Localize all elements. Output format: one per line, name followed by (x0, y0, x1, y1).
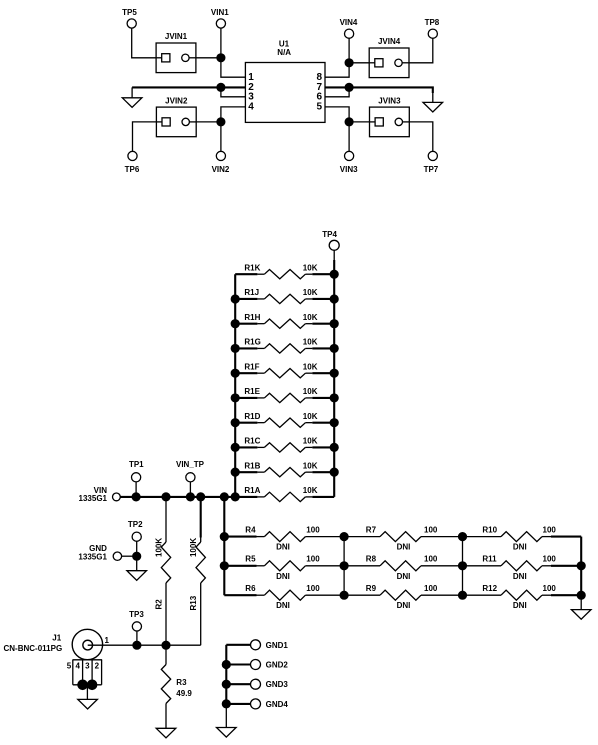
svg-text:VIN3: VIN3 (340, 165, 358, 174)
junction VIN branch R5 (220, 562, 228, 570)
svg-text:10K: 10K (303, 412, 318, 421)
svg-text:N/A: N/A (277, 48, 291, 57)
test point TP2 (128, 520, 143, 541)
resistor R2 100K (155, 497, 171, 645)
junction TP3 (133, 641, 141, 649)
junction left rail R1C (231, 443, 239, 451)
J1 shield pins 5 4 3 2 (67, 660, 102, 685)
svg-text:100: 100 (424, 555, 438, 564)
svg-text:R3: R3 (176, 678, 187, 687)
resistor R10 100 DNI (463, 525, 582, 551)
left rail (bold) (234, 274, 236, 497)
wire GND bus right (bold) (325, 87, 433, 93)
junction GND bus left (217, 83, 225, 91)
svg-text:10K: 10K (303, 288, 318, 297)
test point VIN2 (212, 151, 230, 174)
junction right rail R1D (330, 419, 338, 427)
svg-text:3: 3 (85, 661, 90, 670)
svg-text:JVIN3: JVIN3 (378, 96, 401, 105)
svg-text:TP8: TP8 (425, 18, 440, 27)
connector GND 1335G1 (78, 544, 121, 562)
junction left rail R1G (231, 344, 239, 352)
svg-text:VIN2: VIN2 (212, 165, 230, 174)
wire node to JVIN3 (349, 121, 369, 123)
svg-text:GND2: GND2 (266, 661, 289, 670)
connector VIN 1335G1 (79, 486, 121, 503)
wire U1 pin 5 to VIN3 node (325, 107, 349, 122)
wire right vertical (bold) (580, 537, 582, 596)
svg-text:10K: 10K (303, 486, 318, 495)
svg-text:GND3: GND3 (266, 680, 289, 689)
svg-text:R7: R7 (366, 525, 377, 534)
test point TP1 (129, 460, 144, 482)
svg-text:DNI: DNI (513, 543, 527, 552)
junction shield pin 3 (87, 680, 97, 690)
svg-text:100: 100 (306, 584, 320, 593)
svg-text:100: 100 (543, 525, 557, 534)
svg-text:49.9: 49.9 (176, 689, 192, 698)
wire JVIN4 to TP8 (409, 38, 433, 63)
svg-text:DNI: DNI (397, 601, 411, 610)
svg-text:J1: J1 (52, 633, 61, 642)
ground network right (571, 595, 591, 619)
svg-text:R1F: R1F (244, 362, 259, 371)
wire TP4 to right rail (333, 250, 335, 260)
svg-text:10K: 10K (303, 461, 318, 470)
svg-text:R1H: R1H (244, 313, 260, 322)
junction left rail R1J (231, 295, 239, 303)
svg-text:GND4: GND4 (266, 700, 289, 709)
svg-text:R1G: R1G (244, 338, 260, 347)
svg-text:100: 100 (543, 555, 557, 564)
svg-text:DNI: DNI (276, 543, 290, 552)
wire J1 pin1 to R3 node (88, 644, 166, 646)
junction R3 top (162, 641, 170, 649)
connector GND3 (226, 679, 288, 689)
junction left rail R1E (231, 394, 239, 402)
resistor R1D 10K (235, 412, 334, 428)
svg-text:10K: 10K (303, 362, 318, 371)
svg-text:VIN4: VIN4 (340, 18, 358, 27)
junction right rail R1E (330, 394, 338, 402)
svg-text:TP3: TP3 (129, 610, 144, 619)
wire col3 vertical (462, 537, 464, 596)
svg-text:TP7: TP7 (424, 165, 439, 174)
junction col3 R7 (458, 533, 466, 541)
svg-text:2: 2 (95, 661, 100, 670)
resistor R12 100 DNI (463, 584, 582, 610)
jumper JVIN4 (369, 37, 409, 77)
test point TP3 (129, 610, 144, 631)
resistor R1E 10K (235, 387, 334, 403)
resistor R1A 10K (235, 486, 334, 502)
junction right col R12 (577, 591, 585, 599)
wire TP3 down (136, 631, 138, 645)
junction right rail R1K (330, 270, 338, 278)
test point VIN3 (340, 151, 358, 174)
svg-text:DNI: DNI (397, 572, 411, 581)
junction GND4 (222, 700, 230, 708)
resistor R1H 10K (235, 313, 334, 329)
svg-text:R2: R2 (155, 599, 164, 610)
resistor R3 49.9 (161, 645, 192, 728)
resistor R7 100 DNI (344, 525, 462, 551)
svg-text:R1J: R1J (244, 288, 259, 297)
wire TP2 down (136, 541, 138, 556)
junction left rail bottom (231, 493, 239, 501)
svg-text:1: 1 (105, 636, 110, 645)
svg-text:R1E: R1E (244, 387, 260, 396)
resistor R4 100 DNI (224, 525, 344, 551)
wire VIN branch down (bold) (223, 497, 225, 595)
svg-text:R12: R12 (482, 584, 497, 593)
svg-text:TP4: TP4 (322, 230, 337, 239)
test point TP6 (125, 151, 140, 174)
junction right rail R1G (330, 344, 338, 352)
jumper JVIN1 (156, 32, 196, 72)
junction right rail R1H (330, 320, 338, 328)
svg-text:10K: 10K (303, 263, 318, 272)
wire GND to node (122, 555, 137, 557)
connector GND4 (226, 699, 288, 709)
svg-text:R1A: R1A (244, 486, 260, 495)
wire col2 vertical (343, 537, 345, 596)
svg-text:R13: R13 (189, 595, 198, 610)
junction left rail R1F (231, 369, 239, 377)
svg-text:100K: 100K (155, 538, 164, 557)
svg-text:JVIN4: JVIN4 (378, 37, 401, 46)
resistor R8 100 DNI (344, 555, 462, 581)
ground R3 (156, 728, 176, 738)
wire node to U1 pin 4 (221, 107, 246, 122)
wire JVIN1 to VIN1 node (196, 57, 221, 59)
junction col2 R4 (340, 533, 348, 541)
junction right rail R1F (330, 369, 338, 377)
junction col2 R5 (340, 562, 348, 570)
svg-text:TP6: TP6 (125, 165, 140, 174)
resistor R6 100 DNI (224, 584, 344, 610)
test point TP5 (122, 8, 137, 28)
connector J1 CN-BNC-011PG (4, 629, 103, 659)
svg-text:JVIN1: JVIN1 (165, 32, 188, 41)
junction GND3 (222, 680, 230, 688)
junction shield pin 4 (78, 680, 88, 690)
wire JVIN3 to TP7 (409, 122, 433, 151)
svg-text:100: 100 (543, 584, 557, 593)
junction right col R11 (577, 562, 585, 570)
junction R2 top (162, 493, 170, 501)
wire node to U1 pin 8 (325, 63, 349, 77)
svg-text:VIN_TP: VIN_TP (176, 460, 205, 469)
wire VIN_TP down (189, 482, 191, 497)
test point TP7 (424, 151, 439, 174)
junction VIN branch R4 (220, 533, 228, 541)
junction R13 top (197, 493, 205, 501)
test point TP8 (425, 18, 440, 38)
junction VIN3 node (345, 118, 353, 126)
svg-text:GND1: GND1 (266, 641, 289, 650)
resistor R1J 10K (235, 288, 334, 304)
svg-text:R10: R10 (482, 525, 497, 534)
wire VIN4 down (348, 38, 350, 63)
svg-text:10K: 10K (303, 387, 318, 396)
resistor R1C 10K (235, 437, 334, 453)
svg-text:R9: R9 (366, 584, 377, 593)
junction col2 R6 (340, 591, 348, 599)
wire VIN bus (bold) (120, 496, 235, 498)
svg-text:TP1: TP1 (129, 460, 144, 469)
jumper JVIN2 (156, 96, 196, 136)
ground left (122, 87, 142, 107)
resistor R1B 10K (235, 461, 334, 477)
junction VIN4 node (345, 59, 353, 67)
svg-text:10K: 10K (303, 338, 318, 347)
svg-text:CN-BNC-011PG: CN-BNC-011PG (4, 644, 63, 653)
svg-text:R5: R5 (245, 555, 256, 564)
svg-text:100: 100 (306, 555, 320, 564)
svg-text:10K: 10K (303, 437, 318, 446)
resistor R1G 10K (235, 338, 334, 354)
wire GND header vertical (bold) (225, 645, 227, 704)
svg-text:DNI: DNI (513, 572, 527, 581)
svg-text:VIN1: VIN1 (211, 8, 229, 17)
svg-text:4: 4 (75, 661, 80, 670)
junction TP1 (132, 493, 140, 501)
svg-text:JVIN2: JVIN2 (165, 96, 188, 105)
wire to U1 pin 3 (221, 87, 246, 96)
wire node to U1 pin 1 (221, 58, 246, 77)
test point VIN4 (340, 18, 358, 38)
wire node to JVIN4 (349, 62, 369, 64)
svg-text:TP5: TP5 (122, 8, 137, 17)
svg-text:100: 100 (424, 584, 438, 593)
test point VIN1 (211, 8, 229, 28)
svg-text:R1C: R1C (244, 437, 260, 446)
junction branch down (220, 493, 228, 501)
svg-text:DNI: DNI (276, 572, 290, 581)
svg-text:5: 5 (67, 661, 72, 670)
junction TP2/GND (133, 552, 141, 560)
ground TP2 (127, 556, 147, 580)
wire VIN1 down (220, 28, 222, 58)
wire GND bus left (bold) (132, 86, 245, 88)
junction GND2 (222, 660, 230, 668)
junction VIN1 node (217, 54, 225, 62)
svg-text:DNI: DNI (397, 543, 411, 552)
svg-text:DNI: DNI (276, 601, 290, 610)
junction col3 R8 (458, 562, 466, 570)
svg-text:1335G1: 1335G1 (78, 553, 107, 562)
resistor R9 100 DNI (344, 584, 462, 610)
wire TP5 to JVIN1 (132, 28, 156, 58)
junction VIN_TP (186, 493, 194, 501)
resistor R11 100 DNI (463, 555, 582, 581)
svg-text:R8: R8 (366, 555, 377, 564)
wire TP1 down (135, 482, 137, 497)
wire TP6 to JVIN2 (133, 122, 157, 151)
svg-text:4: 4 (248, 102, 254, 113)
junction right rail R1J (330, 295, 338, 303)
svg-text:5: 5 (316, 102, 322, 113)
svg-text:100: 100 (306, 525, 320, 534)
svg-text:1335G1: 1335G1 (79, 494, 108, 503)
wire VIN2 up (220, 122, 222, 151)
junction col3 R9 (458, 591, 466, 599)
right rail (bold) (333, 260, 335, 497)
svg-text:R11: R11 (482, 555, 497, 564)
wire JVIN2 to VIN2 node (196, 121, 221, 123)
wire to U1 pin 6 (325, 87, 349, 96)
connector GND2 (226, 660, 288, 670)
junction left rail R1D (231, 419, 239, 427)
svg-text:R6: R6 (245, 584, 256, 593)
junction right rail R1B (330, 468, 338, 476)
wire VIN3 down (348, 122, 350, 151)
resistor R5 100 DNI (224, 555, 344, 581)
ground right (423, 93, 443, 112)
junction GND bus right (345, 83, 353, 91)
test point TP4 (322, 230, 339, 251)
junction left rail R1B (231, 468, 239, 476)
svg-text:TP2: TP2 (128, 520, 143, 529)
resistor R1F 10K (235, 362, 334, 378)
connector GND1 (226, 640, 288, 650)
svg-text:R1B: R1B (244, 461, 260, 470)
svg-text:R1D: R1D (244, 412, 260, 421)
resistor R1K 10K (235, 263, 334, 279)
ground J1 shield (78, 685, 98, 709)
junction left rail R1H (231, 320, 239, 328)
svg-text:R4: R4 (245, 525, 256, 534)
jumper JVIN3 (370, 96, 410, 136)
ground GND header (217, 704, 237, 737)
op-amp U1 (245, 39, 325, 122)
svg-text:R1K: R1K (244, 263, 260, 272)
junction VIN2 node (217, 118, 225, 126)
svg-text:10K: 10K (303, 313, 318, 322)
test point VIN_TP (176, 460, 205, 482)
svg-text:DNI: DNI (513, 601, 527, 610)
resistor R13 100K (166, 497, 205, 645)
svg-text:100K: 100K (189, 538, 198, 557)
svg-text:100: 100 (424, 525, 438, 534)
junction right rail R1C (330, 443, 338, 451)
